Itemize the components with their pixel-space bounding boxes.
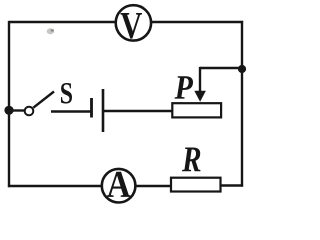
label S: [61, 83, 72, 104]
junction dot (left wire node): [4, 106, 13, 115]
wire: right vertical: [241, 21, 243, 187]
wire: top left segment: [9, 21, 115, 23]
label R: [182, 147, 201, 171]
battery long plate (positive): [102, 89, 105, 132]
switch S hinge contact (open circle): [25, 107, 34, 116]
voltmeter V (meter circle): [116, 5, 151, 40]
wire: top right segment: [151, 21, 243, 23]
wire: switch S to battery: [51, 110, 91, 112]
ammeter A (meter circle): [102, 169, 136, 203]
scan smudge artifact: [47, 28, 54, 34]
wire: resistor R to bottom-right corner: [220, 184, 243, 186]
switch S lever: [33, 92, 54, 108]
wire: battery to potentiometer P: [103, 110, 173, 112]
wiper arrowhead of potentiometer P: [194, 91, 206, 102]
wire: wiper vertical stem: [199, 67, 201, 92]
wire: left junction to switch: [9, 109, 25, 111]
potentiometer P body (rheostat track): [172, 103, 221, 117]
wire: ammeter to resistor R: [135, 185, 172, 187]
voltmeter letter V: [121, 13, 142, 39]
wire: left vertical: [8, 21, 10, 187]
ammeter letter A: [107, 172, 130, 197]
scan smudge speck: [51, 29, 54, 32]
label P: [175, 76, 193, 98]
wire: bottom left segment: [8, 185, 102, 187]
wire: wiper branch horizontal: [200, 67, 242, 69]
resistor R body: [171, 178, 221, 192]
junction dot (wiper tap on right wire): [238, 65, 246, 73]
battery short plate (negative): [90, 98, 93, 118]
